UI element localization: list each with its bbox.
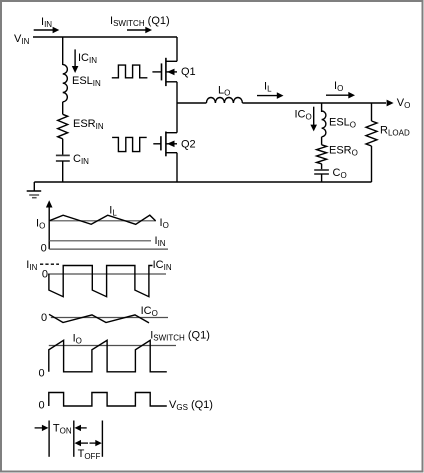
waveform 4 ISWITCH trace — [39, 330, 210, 380]
svg-text:0: 0 — [41, 243, 47, 255]
waveform 5 VGS trace — [39, 393, 213, 413]
current arrow IC_IN — [72, 49, 97, 73]
resistor ESR_O — [317, 145, 358, 164]
waveform 3 zero axis — [41, 312, 168, 324]
svg-text:0: 0 — [41, 312, 47, 324]
wire RLOAD bottom — [371, 146, 373, 182]
wire input branch top — [62, 37, 64, 65]
waveform 4 IO reference line — [49, 333, 176, 346]
current arrow ISWITCH (Q1) — [110, 15, 170, 33]
waveform 3 ICO trace — [49, 305, 158, 323]
current arrow IC_O — [295, 107, 318, 132]
svg-text:0: 0 — [42, 268, 48, 280]
timing marker line t0 — [48, 421, 50, 457]
wire Q2 source to bottom rail — [176, 153, 178, 182]
transistor Q1 — [152, 58, 195, 86]
waveform 1 IL trace — [49, 205, 155, 225]
wire ESR_IN to C_IN — [62, 139, 64, 155]
waveform 2 IIN dashed level — [26, 259, 59, 272]
wire ESR_O to C_O — [321, 164, 323, 170]
TOFF dimension arrows — [75, 440, 102, 461]
resistor R_LOAD — [366, 121, 410, 146]
wire L_O to output — [242, 102, 386, 104]
ground — [27, 182, 42, 198]
inductor ESL_O — [322, 111, 356, 137]
transistor Q2 — [153, 132, 195, 157]
resistor ESR_IN — [58, 114, 104, 139]
inductor ESL_IN — [63, 65, 101, 102]
waveform 2 zero axis — [42, 268, 166, 280]
svg-text:Q1: Q1 — [181, 66, 196, 78]
current arrow IIN — [34, 16, 60, 33]
waveform 1 axis — [41, 200, 168, 254]
waveform 2 ICIN trace — [49, 259, 172, 297]
waveform 1 IO reference line — [36, 217, 169, 231]
svg-text:Q2: Q2 — [181, 139, 196, 151]
gate drive waveform Q2 — [112, 137, 147, 151]
wire switch node to L_O — [177, 102, 206, 104]
wire Q1 drain vertical — [176, 37, 178, 61]
capacitor C_O — [314, 167, 346, 180]
wire top rail VIN to Q1 drain — [33, 36, 177, 38]
svg-text:0: 0 — [39, 399, 45, 411]
current arrow I_L — [257, 81, 284, 99]
svg-text:0: 0 — [39, 368, 45, 380]
capacitor C_IN — [56, 153, 89, 166]
wire ESL_IN to ESR_IN — [62, 102, 64, 115]
wire ESL_O to ESR_O — [321, 137, 323, 145]
wire C_O to bottom rail — [321, 174, 323, 182]
inductor L_O — [206, 85, 242, 104]
gate drive waveform Q1 — [112, 65, 148, 78]
waveform 1 IIN line — [49, 235, 166, 248]
wire output cap branch top — [321, 103, 323, 112]
TON dimension arrows — [35, 423, 87, 436]
node VIN — [14, 33, 30, 46]
timing marker line t2 — [101, 421, 103, 457]
wire C_IN to bottom rail — [62, 161, 64, 182]
wire RLOAD top — [371, 103, 373, 121]
wire bottom rail — [34, 181, 371, 183]
current arrow I_O — [326, 80, 355, 99]
node VO with arrow — [387, 97, 411, 110]
svg-text:VGS (Q1): VGS (Q1) — [169, 399, 213, 412]
wire Q1 source to switch node to Q2 drain — [176, 82, 178, 133]
timing marker line t1 — [73, 421, 75, 457]
